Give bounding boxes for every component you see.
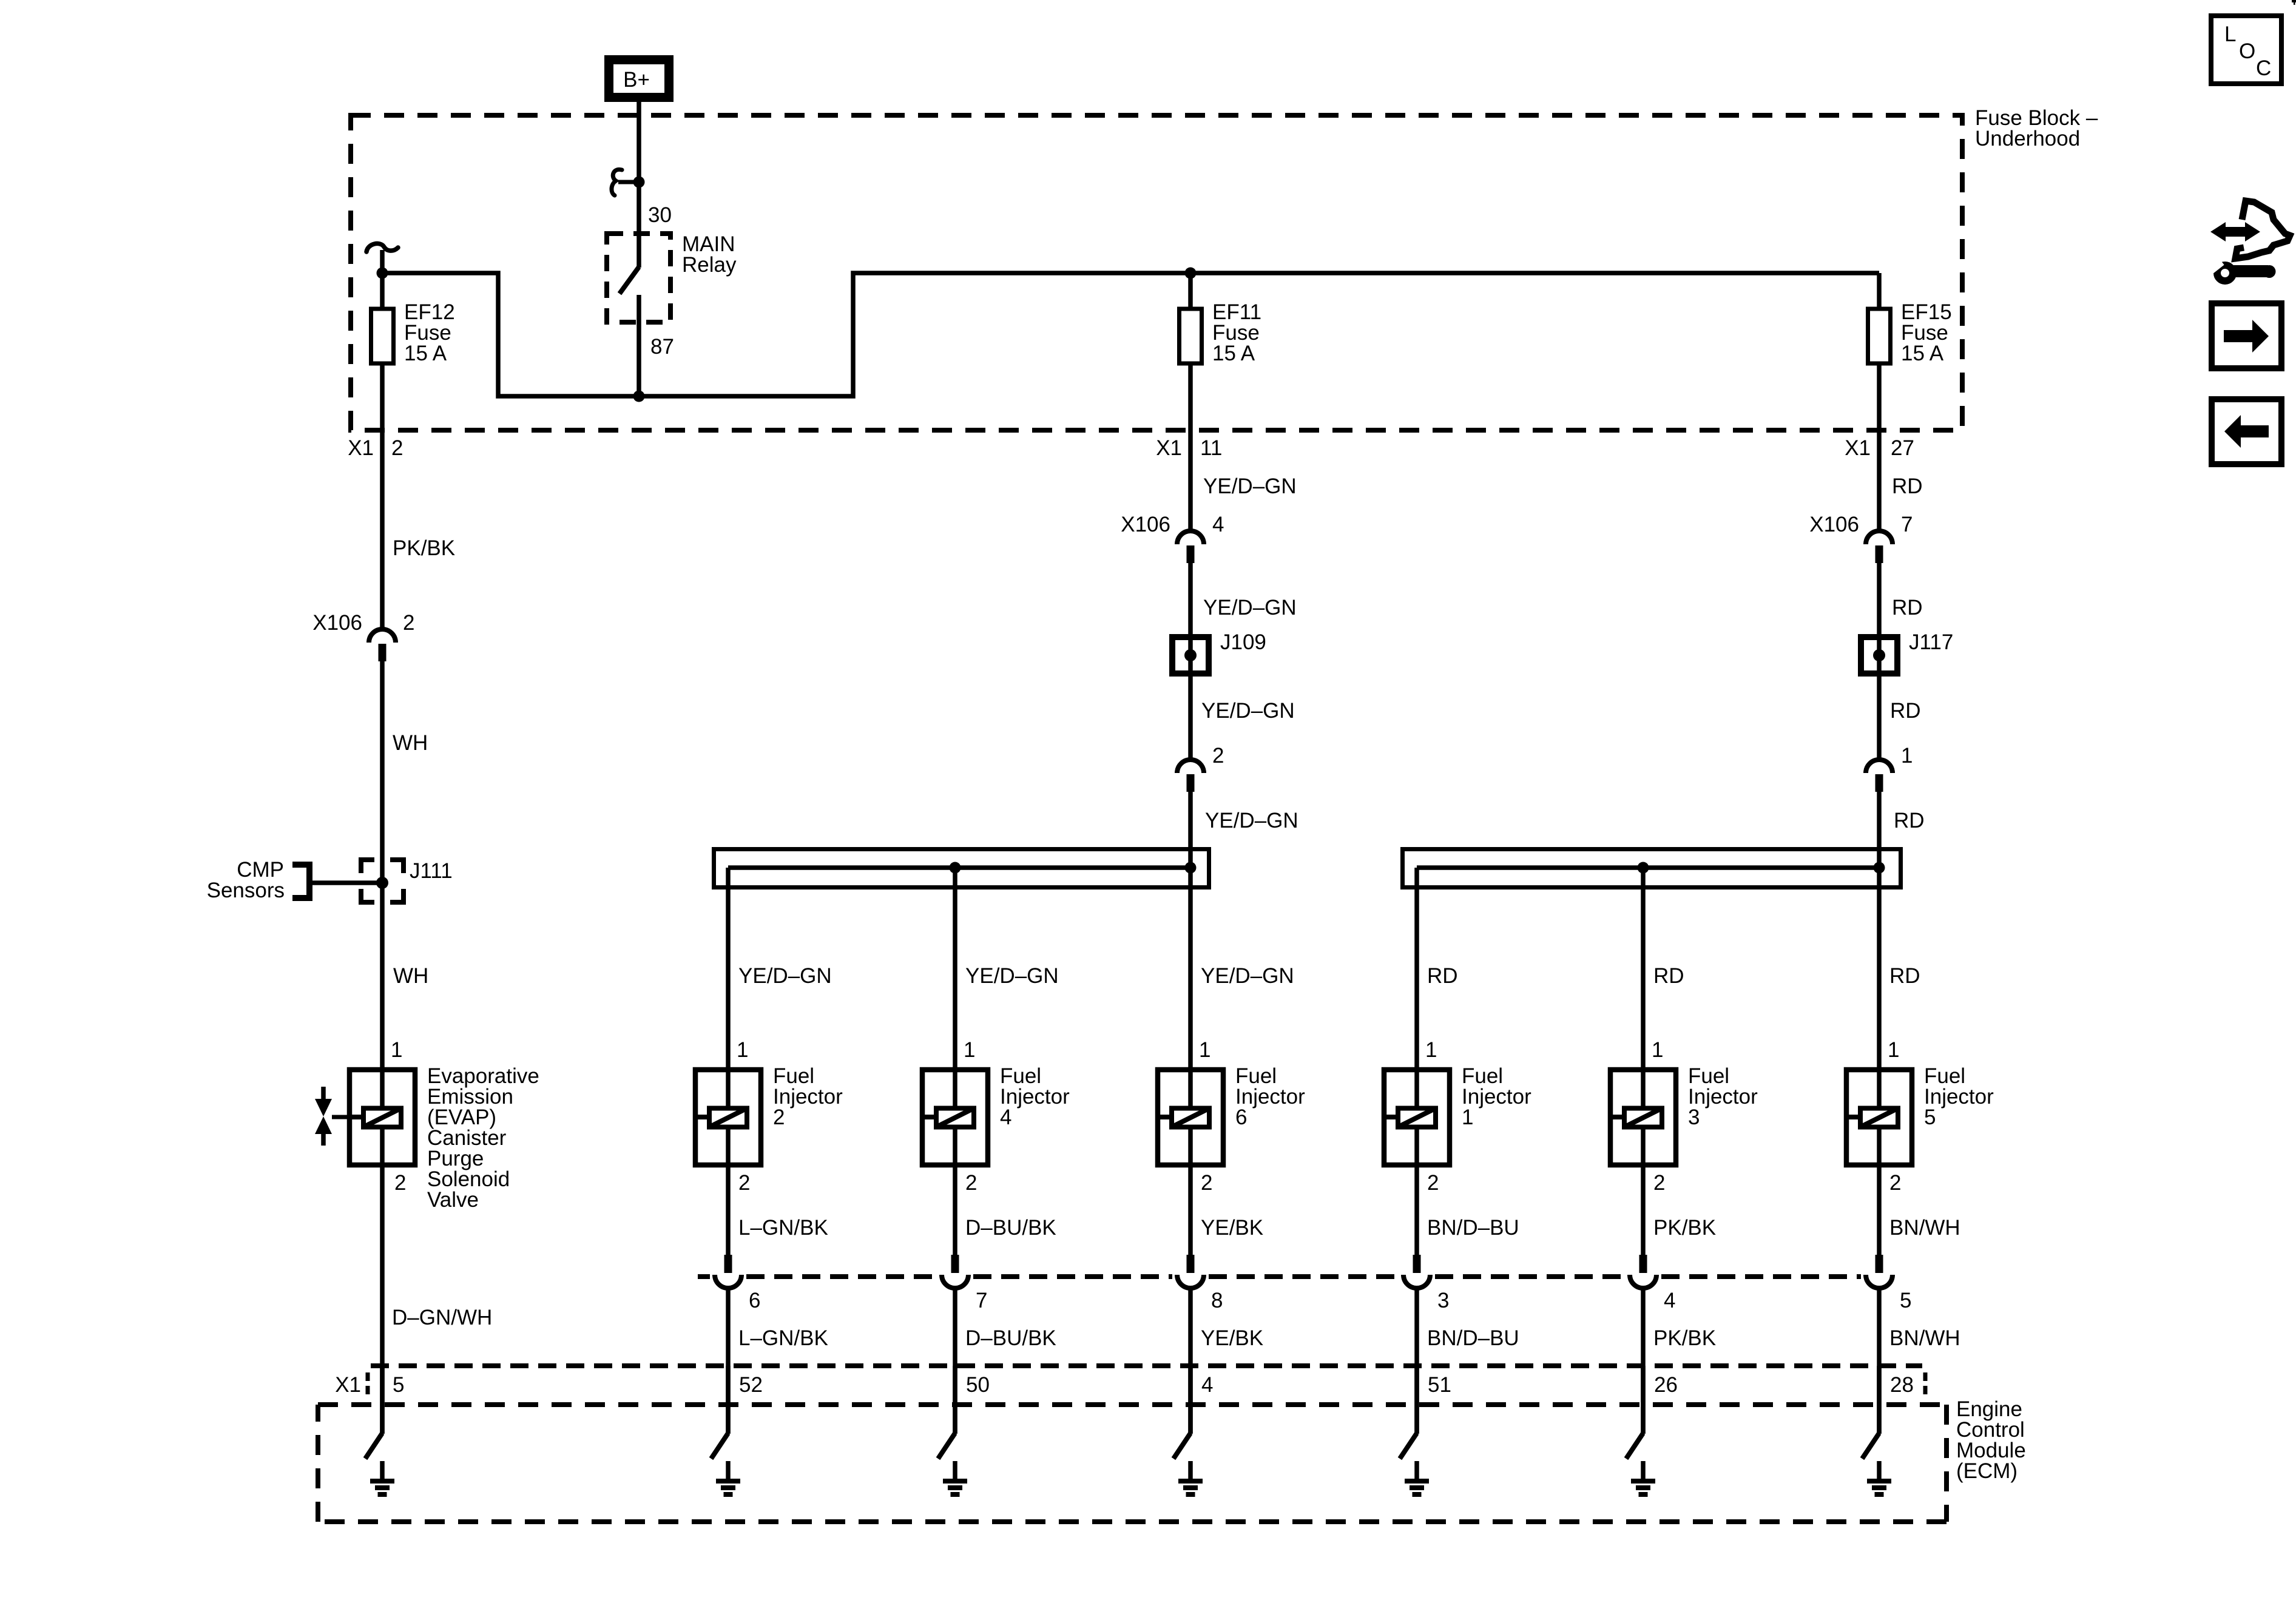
svg-text:YE/BK: YE/BK [1201,1326,1263,1350]
svg-text:6: 6 [749,1289,760,1312]
svg-text:BN/WH: BN/WH [1889,1326,1960,1350]
svg-text:30: 30 [648,203,672,227]
svg-text:50: 50 [966,1373,990,1397]
svg-text:3: 3 [1688,1106,1700,1129]
svg-text:1: 1 [964,1038,975,1062]
svg-text:Underhood: Underhood [1975,127,2080,150]
svg-text:2: 2 [1212,744,1224,768]
svg-text:X106: X106 [1809,513,1859,536]
svg-text:J111: J111 [410,859,453,883]
svg-text:2: 2 [773,1106,785,1129]
svg-text:BN/WH: BN/WH [1889,1216,1960,1240]
svg-text:4: 4 [1201,1373,1213,1397]
svg-text:PK/BK: PK/BK [393,536,455,560]
svg-text:RD: RD [1892,474,1923,498]
svg-text:B+: B+ [623,68,650,92]
svg-text:Valve: Valve [427,1188,479,1212]
svg-text:2: 2 [1201,1171,1212,1195]
svg-text:2: 2 [1427,1171,1439,1195]
svg-text:4: 4 [1000,1106,1011,1129]
svg-text:D–BU/BK: D–BU/BK [965,1326,1056,1350]
svg-text:BN/D–BU: BN/D–BU [1427,1326,1519,1350]
svg-text:15 A: 15 A [404,342,447,365]
svg-text:X106: X106 [312,611,362,635]
svg-text:1: 1 [1652,1038,1663,1062]
svg-text:15 A: 15 A [1212,342,1255,365]
svg-text:26: 26 [1654,1373,1678,1397]
svg-text:2: 2 [965,1171,977,1195]
svg-text:D–BU/BK: D–BU/BK [965,1216,1056,1240]
svg-text:X1: X1 [1156,436,1182,460]
svg-text:YE/D–GN: YE/D–GN [1203,596,1297,619]
svg-text:D–GN/WH: D–GN/WH [392,1306,492,1329]
svg-text:5: 5 [1900,1289,1911,1312]
svg-text:5: 5 [393,1373,404,1397]
svg-text:Sensors: Sensors [207,879,285,902]
svg-text:4: 4 [1664,1289,1675,1312]
svg-text:4: 4 [1212,513,1224,536]
svg-text:RD: RD [1427,964,1458,988]
svg-text:5: 5 [1924,1106,1936,1129]
svg-text:X106: X106 [1121,513,1170,536]
svg-text:J109: J109 [1220,630,1266,654]
svg-text:YE/BK: YE/BK [1201,1216,1263,1240]
svg-text:RD: RD [1890,699,1921,723]
svg-text:2: 2 [1889,1171,1901,1195]
svg-text:WH: WH [393,731,428,755]
svg-text:2: 2 [391,436,403,460]
svg-text:O: O [2239,39,2255,63]
svg-text:1: 1 [737,1038,748,1062]
svg-text:1: 1 [1199,1038,1210,1062]
svg-text:WH: WH [393,964,428,988]
svg-text:3: 3 [1437,1289,1449,1312]
svg-text:(ECM): (ECM) [1956,1459,2017,1483]
svg-text:YE/D–GN: YE/D–GN [1203,474,1297,498]
svg-text:11: 11 [1200,436,1222,460]
svg-text:Relay: Relay [682,253,737,277]
svg-text:28: 28 [1890,1373,1914,1397]
svg-text:8: 8 [1211,1289,1223,1312]
svg-text:27: 27 [1891,436,1914,460]
svg-text:C: C [2256,56,2271,80]
svg-text:BN/D–BU: BN/D–BU [1427,1216,1519,1240]
svg-text:2: 2 [403,611,414,635]
svg-text:2: 2 [394,1171,406,1195]
svg-text:YE/D–GN: YE/D–GN [965,964,1059,988]
svg-text:YE/D–GN: YE/D–GN [1201,964,1294,988]
svg-text:RD: RD [1894,809,1925,832]
svg-text:52: 52 [739,1373,763,1397]
svg-text:6: 6 [1235,1106,1247,1129]
svg-text:YE/D–GN: YE/D–GN [1205,809,1298,832]
svg-text:X1: X1 [1845,436,1871,460]
svg-text:1: 1 [391,1038,402,1062]
svg-text:7: 7 [976,1289,987,1312]
svg-text:L–GN/BK: L–GN/BK [738,1326,828,1350]
svg-text:PK/BK: PK/BK [1653,1326,1716,1350]
svg-text:2: 2 [738,1171,750,1195]
svg-text:PK/BK: PK/BK [1653,1216,1716,1240]
svg-text:7: 7 [1901,513,1913,536]
svg-text:15 A: 15 A [1901,342,1944,365]
svg-text:L: L [2224,22,2236,46]
svg-text:51: 51 [1428,1373,1451,1397]
svg-text:1: 1 [1888,1038,1899,1062]
svg-text:YE/D–GN: YE/D–GN [738,964,832,988]
svg-text:YE/D–GN: YE/D–GN [1201,699,1295,723]
svg-text:X1: X1 [335,1373,361,1397]
svg-text:J117: J117 [1909,630,1953,654]
svg-text:1: 1 [1901,744,1913,768]
svg-text:2: 2 [1653,1171,1665,1195]
svg-text:87: 87 [650,335,674,359]
svg-text:1: 1 [1425,1038,1437,1062]
svg-text:RD: RD [1653,964,1684,988]
svg-text:RD: RD [1889,964,1920,988]
svg-text:L–GN/BK: L–GN/BK [738,1216,828,1240]
svg-text:1: 1 [1462,1106,1473,1129]
svg-text:RD: RD [1892,596,1923,619]
svg-text:X1: X1 [348,436,374,460]
